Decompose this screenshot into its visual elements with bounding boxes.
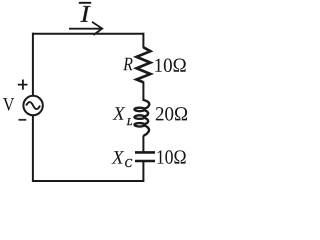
inductor entry curve from top wire (143, 100, 149, 109)
current arrow shaft (69, 28, 102, 30)
wire: top rail (33, 33, 144, 35)
label XL: X (italic) (112, 107, 125, 119)
inductor loop 2 (135, 115, 145, 119)
wire: right rail upper segment (top-right corner to resistor) (142, 33, 144, 48)
capacitor XC: bottom plate (135, 160, 155, 163)
label 20 ohm (inductor value) (156, 107, 187, 121)
resistor R: zigzag (137, 47, 151, 82)
inductor loop 1 (135, 108, 145, 112)
label R (italic) (123, 58, 133, 70)
inductor connector loop1-loop2 (144, 110, 148, 116)
inductor XL: coil (135, 100, 150, 136)
label I (current phasor, italic) (81, 6, 91, 22)
wire: right rail segment between resistor and inductor (142, 82, 144, 102)
label I overbar (79, 2, 91, 4)
label XC: C subscript (125, 159, 132, 167)
label XC: X (italic) (111, 151, 124, 163)
current arrow head (92, 22, 102, 35)
capacitor XC: top plate (135, 151, 155, 154)
AC voltage source V: sine wave (26, 102, 40, 109)
label 10 ohm (capacitor value) (157, 150, 185, 164)
label V (source voltage) (3, 98, 14, 111)
wire: left rail lower segment (source bottom to bottom-left corner) (32, 115, 34, 181)
label XL: L subscript (127, 118, 132, 125)
inductor loop 3 (135, 123, 145, 127)
label plus sign of source (18, 80, 28, 90)
wire: right rail lower segment (capacitor to bottom-right corner) (142, 161, 144, 182)
AC voltage source V: circle (23, 96, 42, 115)
wire: right rail segment between inductor and capacitor (142, 136, 144, 153)
wire: left rail upper segment (top-left corner to source top) (32, 33, 34, 96)
label minus sign of source (19, 119, 27, 121)
inductor connector loop2-loop3 (144, 118, 148, 124)
inductor exit curve to bottom wire (143, 126, 149, 136)
label 10 ohm (resistor value) (155, 59, 185, 73)
wire: bottom rail (32, 180, 143, 182)
